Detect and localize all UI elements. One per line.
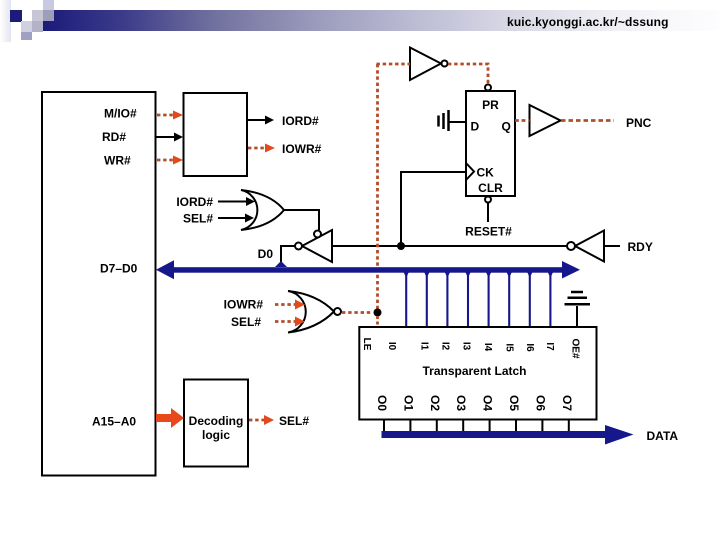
svg-text:D: D	[471, 120, 480, 134]
nor-gate U8 (IOWR#+SEL#)	[288, 291, 341, 333]
header gradient bar	[43, 10, 720, 31]
svg-text:I5: I5	[504, 343, 515, 352]
svg-text:SEL#: SEL#	[183, 212, 213, 226]
wire O0 stub	[383, 420, 385, 431]
svg-text:RESET#: RESET#	[465, 225, 512, 239]
svg-text:CLR: CLR	[478, 181, 503, 195]
header squares	[43, 0, 54, 10]
svg-text:RDY: RDY	[628, 240, 653, 254]
svg-text:D0: D0	[258, 247, 274, 261]
wire IOWR# dashed into NOR gate	[275, 300, 305, 310]
wire O6 stub	[541, 420, 543, 431]
bus wire I4	[486, 272, 491, 327]
svg-text:SEL#: SEL#	[231, 315, 261, 329]
bus wire I0	[404, 272, 409, 327]
svg-text:A15–A0: A15–A0	[92, 415, 136, 429]
svg-text:O7: O7	[560, 395, 574, 411]
wire RD# arrow	[156, 133, 183, 142]
transparent latch U9	[359, 327, 596, 420]
wire Q to buffer dashed	[515, 119, 530, 122]
wire O5 stub	[515, 420, 517, 431]
svg-text:M/IO#: M/IO#	[104, 107, 137, 121]
wire IOWR# dashed output arrow	[248, 144, 275, 153]
svg-text:O3: O3	[454, 395, 468, 411]
svg-text:D7–D0: D7–D0	[100, 262, 138, 276]
svg-text:PR: PR	[482, 98, 499, 112]
svg-text:IOWR#: IOWR#	[224, 298, 264, 312]
svg-text:I6: I6	[524, 343, 535, 352]
wire NOR out dashed to LE node	[342, 311, 373, 314]
bus wire I2	[445, 272, 450, 327]
wire O7 stub	[568, 420, 570, 431]
bus wire I7	[548, 272, 553, 327]
decoding logic box U10	[184, 380, 248, 467]
svg-text:IORD#: IORD#	[282, 114, 319, 128]
wire O4 stub	[489, 420, 491, 431]
inverter U5 (top)	[410, 48, 448, 81]
svg-text:RD#: RD#	[102, 130, 126, 144]
svg-text:O2: O2	[428, 395, 442, 411]
svg-text:Transparent Latch: Transparent Latch	[422, 364, 526, 378]
buffer U6 (Q to PNC)	[530, 105, 561, 136]
junction node LE	[374, 309, 382, 317]
wire buffer to PNC dashed	[561, 119, 614, 122]
svg-text:O5: O5	[507, 395, 521, 411]
svg-text:CK: CK	[477, 166, 495, 180]
decoder box U1	[184, 93, 248, 176]
CPU block	[42, 92, 156, 476]
wire RESET#	[487, 203, 489, 222]
svg-text:O0: O0	[375, 395, 389, 411]
tri-state buffer U3 (D0 driver)	[295, 230, 332, 262]
PR bubble	[485, 85, 491, 91]
wire IORD# output arrow	[247, 116, 274, 125]
wire D0 from tri-state to bus	[281, 246, 295, 264]
CLR bubble	[485, 197, 491, 203]
svg-text:IOWR#: IOWR#	[282, 142, 322, 156]
wire SEL# dashed arrow	[249, 415, 274, 425]
svg-text:IORD#: IORD#	[176, 195, 213, 209]
header left fade	[0, 0, 11, 42]
wire SEL# into OR gate	[218, 214, 254, 223]
wire SEL# dashed into NOR gate	[275, 317, 305, 327]
svg-text:SEL#: SEL#	[279, 414, 309, 428]
wire M/IO# dashed arrow	[157, 111, 183, 120]
svg-text:I2: I2	[440, 342, 451, 351]
svg-text:Q: Q	[502, 120, 511, 134]
CK edge marker	[466, 163, 474, 180]
ground (D input)	[439, 110, 467, 131]
or-gate U2 (IORD#+SEL#)	[241, 190, 284, 230]
junction node (CK tap)	[397, 242, 405, 250]
svg-text:I4: I4	[482, 343, 493, 352]
svg-text:logic: logic	[202, 428, 230, 442]
bus wire I1	[424, 272, 429, 327]
inverter U7 (RDY)	[567, 231, 604, 262]
header url text	[507, 15, 669, 29]
wire CK branch	[401, 172, 466, 246]
bus D7-D0	[156, 260, 580, 279]
wire dashed inverter out to PR	[448, 64, 488, 84]
ground (OE#)	[565, 292, 591, 327]
wire O2 stub	[436, 420, 438, 431]
wire IORD# into OR gate	[218, 197, 255, 206]
svg-text:DATA: DATA	[647, 429, 679, 443]
wire RDY stub	[604, 245, 620, 247]
bus wire I5	[507, 272, 512, 327]
svg-text:OE#: OE#	[570, 338, 581, 358]
wire WR# dashed arrow	[157, 156, 183, 165]
wire O1 stub	[409, 420, 411, 431]
bus wire I3	[465, 272, 470, 327]
wire OR output to tri-state enable	[283, 210, 319, 230]
svg-text:I1: I1	[419, 342, 430, 351]
svg-text:O4: O4	[481, 395, 495, 411]
svg-text:Decoding: Decoding	[189, 414, 244, 428]
D flip-flop U4	[466, 91, 515, 196]
wire IOWR# net vertical dashed	[376, 64, 379, 309]
wire dashed to inverter input	[377, 63, 411, 66]
wire O3 stub	[462, 420, 464, 431]
bus wire I6	[527, 272, 532, 327]
svg-text:O1: O1	[401, 395, 415, 411]
wire RDY line	[332, 245, 567, 247]
wire dashed node to latch LE	[376, 316, 379, 327]
svg-text:I7: I7	[544, 342, 555, 351]
node D0 bump on bus	[275, 261, 287, 267]
svg-text:LE: LE	[361, 338, 372, 351]
svg-text:O6: O6	[533, 395, 547, 411]
svg-text:I0: I0	[386, 342, 397, 351]
wire A15-A0 thick arrow	[156, 408, 184, 428]
svg-text:PNC: PNC	[626, 116, 652, 130]
bus DATA	[382, 425, 634, 445]
svg-text:I3: I3	[461, 342, 472, 351]
label Decoding logic	[189, 414, 244, 442]
svg-text:WR#: WR#	[104, 154, 131, 168]
